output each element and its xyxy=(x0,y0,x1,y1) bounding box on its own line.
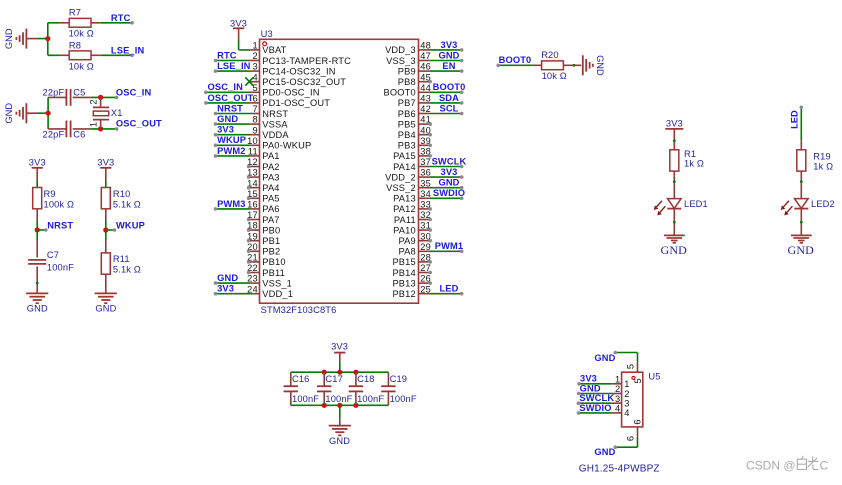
U3 pin 3 (PC14-OSC32_IN) xyxy=(214,61,336,76)
svg-text:PB2: PB2 xyxy=(262,247,280,257)
wire R10 to node WKUP xyxy=(105,220,107,230)
svg-text:5: 5 xyxy=(625,364,635,369)
wire NRST to C7 xyxy=(36,230,38,241)
svg-text:GND: GND xyxy=(329,436,350,446)
svg-text:LED2: LED2 xyxy=(811,199,835,209)
svg-text:C5: C5 xyxy=(73,88,85,98)
U3 pin 25 (PB12) xyxy=(392,284,463,299)
svg-text:EN: EN xyxy=(442,61,455,71)
svg-text:3V3: 3V3 xyxy=(217,125,234,135)
svg-text:100nF: 100nF xyxy=(325,394,352,404)
svg-text:SWCLK: SWCLK xyxy=(432,156,467,166)
U3 pin 7 (NRST) xyxy=(214,103,289,118)
U3 pin 11 (PA1) xyxy=(214,146,280,161)
U3 pin 19 (PB1) xyxy=(247,231,281,246)
wire R9 to node NRST xyxy=(36,220,38,230)
svg-text:OSC_IN: OSC_IN xyxy=(208,82,244,92)
svg-text:C18: C18 xyxy=(357,374,375,384)
svg-text:LED: LED xyxy=(789,110,799,129)
svg-text:LSE_IN: LSE_IN xyxy=(111,45,145,55)
wire LED1 to ground xyxy=(673,209,675,236)
svg-text:3: 3 xyxy=(252,62,257,72)
svg-text:VDD_2: VDD_2 xyxy=(385,172,416,182)
svg-text:GND: GND xyxy=(95,303,116,313)
junction OSC_IN xyxy=(98,95,103,100)
svg-text:1: 1 xyxy=(624,379,629,389)
LED LED2 xyxy=(781,199,835,216)
svg-text:100k Ω: 100k Ω xyxy=(44,199,75,209)
svg-text:GND: GND xyxy=(661,243,688,257)
svg-text:RTC: RTC xyxy=(217,50,237,60)
resistor R20 xyxy=(532,50,582,81)
U3 pin 13 (PA3) xyxy=(247,168,280,183)
svg-text:35: 35 xyxy=(420,178,431,188)
svg-text:37: 37 xyxy=(420,157,431,167)
svg-text:4: 4 xyxy=(624,408,629,418)
U3 pin 10 (PA0-WKUP) xyxy=(214,135,312,150)
svg-text:VSS_1: VSS_1 xyxy=(262,278,292,288)
power 3V3 (U3 VBAT) xyxy=(230,19,247,40)
svg-text:1: 1 xyxy=(615,374,620,384)
capacitor C19 xyxy=(381,372,417,405)
capacitor C17 xyxy=(317,372,353,405)
junction cap common xyxy=(46,111,51,116)
svg-text:SWDIO: SWDIO xyxy=(579,403,611,413)
capacitor C18 xyxy=(349,372,385,405)
U3 pin 41 (PB5) xyxy=(398,115,432,130)
svg-text:3V3: 3V3 xyxy=(230,19,247,29)
wire 3V3 to pin 1 xyxy=(238,40,240,50)
junction bottom bus xyxy=(322,403,327,408)
U3 pin 47 (VSS_3) xyxy=(386,50,463,65)
svg-text:PC14-OSC32_IN: PC14-OSC32_IN xyxy=(262,66,335,76)
svg-text:SDA: SDA xyxy=(439,93,459,103)
svg-text:2: 2 xyxy=(88,99,98,104)
U3 pin 16 (PA6) xyxy=(214,199,280,214)
svg-text:X1: X1 xyxy=(111,108,123,118)
capacitor C6 xyxy=(43,121,91,140)
junction top bus xyxy=(353,370,358,375)
junction OSC_OUT xyxy=(98,126,103,131)
junction top bus xyxy=(337,370,342,375)
svg-text:R11: R11 xyxy=(113,254,130,264)
LED LED1 xyxy=(654,199,708,216)
svg-text:PB4: PB4 xyxy=(398,130,416,140)
svg-text:10k Ω: 10k Ω xyxy=(69,28,94,38)
U3 pin 15 (PA5) xyxy=(247,189,280,204)
svg-text:PB10: PB10 xyxy=(262,257,285,267)
svg-text:3: 3 xyxy=(615,394,620,404)
svg-text:PB14: PB14 xyxy=(392,268,415,278)
svg-text:LSE_IN: LSE_IN xyxy=(217,61,251,71)
U3 pin 28 (PB15) xyxy=(392,253,432,268)
svg-text:C6: C6 xyxy=(73,130,85,140)
svg-text:PA4: PA4 xyxy=(262,183,279,193)
resistor R9 xyxy=(33,188,74,221)
U3 pin 22 (PB11) xyxy=(247,263,285,278)
U5 pin 6 (GND bottom) xyxy=(594,419,642,457)
svg-text:47: 47 xyxy=(420,51,431,61)
resistor R19 xyxy=(797,141,833,199)
svg-text:OSC_OUT: OSC_OUT xyxy=(116,119,162,129)
svg-text:PWM1: PWM1 xyxy=(435,241,464,251)
svg-text:7: 7 xyxy=(252,104,257,114)
resistor R7 xyxy=(59,8,100,39)
svg-text:R19: R19 xyxy=(813,151,831,161)
svg-text:PA7: PA7 xyxy=(262,215,279,225)
resistor R8 xyxy=(59,40,100,71)
junction NRST xyxy=(35,227,40,232)
svg-text:22pF: 22pF xyxy=(43,88,65,98)
wire 3V3 to R10 xyxy=(105,180,107,188)
svg-text:6: 6 xyxy=(625,436,635,441)
svg-text:100nF: 100nF xyxy=(47,263,74,273)
wire net RTC xyxy=(101,22,132,24)
U3 pin 21 (PB10) xyxy=(247,253,286,268)
svg-text:42: 42 xyxy=(420,104,431,114)
connector U5 body xyxy=(622,372,643,427)
svg-text:3V3: 3V3 xyxy=(441,40,458,50)
svg-text:PA13: PA13 xyxy=(393,194,416,204)
svg-text:GND: GND xyxy=(595,55,605,76)
ground GND (R7/R8 common) xyxy=(4,28,37,49)
svg-text:PB1: PB1 xyxy=(262,236,280,246)
svg-text:GND: GND xyxy=(4,28,14,49)
svg-text:WKUP: WKUP xyxy=(217,135,246,145)
svg-text:PA1: PA1 xyxy=(262,151,279,161)
U3 pin 27 (PB14) xyxy=(392,263,432,278)
svg-text:8: 8 xyxy=(252,115,257,125)
svg-text:1: 1 xyxy=(88,122,98,127)
svg-text:PB12: PB12 xyxy=(392,289,415,299)
svg-text:24: 24 xyxy=(247,284,258,294)
svg-text:U3: U3 xyxy=(261,29,273,39)
svg-text:BOOT0: BOOT0 xyxy=(499,55,532,65)
svg-text:3: 3 xyxy=(624,399,629,409)
svg-text:5: 5 xyxy=(252,83,257,93)
svg-text:100nF: 100nF xyxy=(292,394,319,404)
svg-text:C17: C17 xyxy=(325,374,343,384)
svg-text:PB5: PB5 xyxy=(398,119,416,129)
U3 pin 33 (PA12) xyxy=(393,200,432,215)
junction bottom bus xyxy=(353,403,358,408)
svg-text:3V3: 3V3 xyxy=(580,374,597,384)
svg-text:STM32F103C8T6: STM32F103C8T6 xyxy=(261,305,337,315)
svg-text:PA11: PA11 xyxy=(394,215,416,225)
U3 pin 31 (PA10) xyxy=(393,221,432,236)
svg-text:SWCLK: SWCLK xyxy=(579,393,614,403)
U3 pin 2 (PC13-TAMPER-RTC) xyxy=(214,50,351,65)
ground GND (crystal caps) xyxy=(4,103,37,124)
svg-text:3V3: 3V3 xyxy=(441,167,458,177)
U3 pin 37 (PA14) xyxy=(393,156,466,171)
svg-text:C19: C19 xyxy=(390,374,408,384)
U3 pin 34 (PA13) xyxy=(393,188,465,203)
svg-text:11: 11 xyxy=(248,147,258,157)
svg-text:43: 43 xyxy=(420,94,431,104)
svg-text:29: 29 xyxy=(420,242,431,252)
svg-text:R8: R8 xyxy=(69,40,81,50)
svg-text:23: 23 xyxy=(247,274,258,284)
svg-text:LED1: LED1 xyxy=(684,199,708,209)
svg-text:PA5: PA5 xyxy=(262,194,279,204)
svg-text:NRST: NRST xyxy=(262,109,288,119)
svg-text:PA6: PA6 xyxy=(262,204,279,214)
svg-text:PB15: PB15 xyxy=(392,257,415,267)
junction bottom bus xyxy=(337,403,342,408)
U3 pin 1 (VBAT) xyxy=(250,41,287,56)
svg-text:PB3: PB3 xyxy=(398,141,416,151)
U3 pin 8 (VSSA) xyxy=(214,114,289,129)
U3 pin 46 (PB9) xyxy=(398,61,464,76)
svg-text:3V3: 3V3 xyxy=(29,157,46,167)
svg-text:NRST: NRST xyxy=(217,103,243,113)
svg-text:NRST: NRST xyxy=(47,221,73,231)
svg-text:5: 5 xyxy=(633,378,643,383)
junction WKUP xyxy=(103,227,108,232)
svg-text:PB9: PB9 xyxy=(398,66,416,76)
svg-text:PWM3: PWM3 xyxy=(217,199,246,209)
wire 3V3 to R9 xyxy=(36,180,38,188)
svg-text:4: 4 xyxy=(615,404,620,414)
wire net LED xyxy=(800,108,802,141)
svg-text:PB6: PB6 xyxy=(398,109,416,119)
capacitor C5 xyxy=(43,88,91,106)
svg-text:R20: R20 xyxy=(541,50,559,60)
U3 pin 30 (PA9) xyxy=(398,231,432,246)
wire WKUP to R11 xyxy=(105,230,107,241)
wire net BOOT0 xyxy=(498,64,531,66)
power 3V3 (cap bank) xyxy=(331,341,348,361)
U5 pin 1 (3V3) xyxy=(577,374,629,389)
ground GND (LED2) xyxy=(788,235,815,256)
pin 1 marker dot U5 xyxy=(632,376,635,379)
svg-text:PD1-OSC_OUT: PD1-OSC_OUT xyxy=(262,98,330,108)
ground GND (LED1) xyxy=(661,235,688,256)
svg-text:R1: R1 xyxy=(684,149,696,159)
svg-text:PB11: PB11 xyxy=(262,268,285,278)
svg-text:10k Ω: 10k Ω xyxy=(69,61,94,71)
svg-text:GND: GND xyxy=(438,178,459,188)
svg-text:PWM2: PWM2 xyxy=(217,146,246,156)
svg-text:PA12: PA12 xyxy=(393,204,416,214)
svg-text:16: 16 xyxy=(247,200,258,210)
ground GND (R11) xyxy=(95,293,117,313)
svg-text:PA10: PA10 xyxy=(393,225,416,235)
svg-text:PA8: PA8 xyxy=(398,247,415,257)
svg-text:U5: U5 xyxy=(648,372,660,382)
svg-text:R10: R10 xyxy=(113,189,131,199)
U3 pin 17 (PA7) xyxy=(247,210,280,225)
U5 pin 3 (SWCLK) xyxy=(577,393,630,408)
resistor R11 xyxy=(101,241,141,294)
svg-text:100nF: 100nF xyxy=(390,394,417,404)
ground GND (R20) xyxy=(583,55,605,76)
svg-text:CSDN @: CSDN @ xyxy=(746,459,796,473)
svg-text:PB13: PB13 xyxy=(392,278,415,288)
svg-text:GND: GND xyxy=(594,447,615,457)
svg-text:GH1.25-4PWBPZ: GH1.25-4PWBPZ xyxy=(579,464,660,475)
svg-text:PB8: PB8 xyxy=(398,77,416,87)
svg-text:PA0-WKUP: PA0-WKUP xyxy=(262,141,311,151)
wire top bus xyxy=(291,371,389,373)
svg-text:GND: GND xyxy=(594,353,615,363)
resistor R10 xyxy=(101,188,141,221)
U3 pin 9 (VDDA) xyxy=(214,125,290,140)
svg-text:PA15: PA15 xyxy=(393,151,416,161)
svg-text:VDD_1: VDD_1 xyxy=(262,289,293,299)
svg-text:PC15-OSC32_OUT: PC15-OSC32_OUT xyxy=(262,77,346,87)
svg-text:6: 6 xyxy=(632,419,642,424)
svg-text:100nF: 100nF xyxy=(357,394,384,404)
ground GND (C7) xyxy=(26,293,48,313)
U3 pin 20 (PB2) xyxy=(247,242,281,257)
capacitor C16 xyxy=(284,372,320,405)
wire LED2 to ground xyxy=(800,209,802,236)
wire 3V3 stem to top bus xyxy=(339,361,341,372)
svg-text:SCL: SCL xyxy=(439,103,458,113)
op-amp U3 body (STM32F103C8T6 MCU) xyxy=(260,39,419,303)
svg-text:34: 34 xyxy=(420,189,431,199)
junction top bus xyxy=(322,370,327,375)
U3 pin 39 (PB3) xyxy=(398,136,432,151)
U3 pin 35 (VSS_2) xyxy=(386,178,463,193)
svg-text:VSS_3: VSS_3 xyxy=(386,56,416,66)
U3 pin 12 (PA2) xyxy=(247,157,280,172)
svg-text:R7: R7 xyxy=(69,8,81,18)
capacitor C7 xyxy=(28,241,74,294)
svg-text:5.1k Ω: 5.1k Ω xyxy=(113,265,141,275)
svg-text:9: 9 xyxy=(252,125,257,135)
svg-text:2: 2 xyxy=(252,51,257,61)
U3 pin 18 (PB0) xyxy=(247,221,281,236)
U3 pin 24 (VDD_1) xyxy=(214,284,293,299)
U3 pin 23 (VSS_1) xyxy=(214,273,292,288)
svg-text:3V3: 3V3 xyxy=(331,341,348,351)
wire R7/R8 common node xyxy=(37,23,59,56)
U3 pin 6 (PD1-OSC_OUT) xyxy=(204,93,330,108)
U3 pin 38 (PA15) xyxy=(393,147,432,162)
svg-text:LED: LED xyxy=(439,284,458,294)
resistor R1 xyxy=(670,149,704,199)
svg-text:OSC_OUT: OSC_OUT xyxy=(208,93,254,103)
U3 pin 26 (PB13) xyxy=(392,274,432,289)
svg-text:PA3: PA3 xyxy=(262,172,279,182)
svg-text:GND: GND xyxy=(217,273,238,283)
crystal X1 xyxy=(93,97,123,128)
svg-text:PB7: PB7 xyxy=(398,98,416,108)
svg-text:R9: R9 xyxy=(44,189,56,199)
junction R7/R8 node xyxy=(45,36,50,41)
svg-text:GND: GND xyxy=(27,303,48,313)
svg-text:OSC_IN: OSC_IN xyxy=(116,87,152,97)
svg-text:GND: GND xyxy=(438,50,459,60)
svg-text:2: 2 xyxy=(624,389,629,399)
power 3V3 (LED1) xyxy=(665,119,683,150)
U3 pin 48 (VDD_3) xyxy=(385,40,463,55)
svg-text:PC13-TAMPER-RTC: PC13-TAMPER-RTC xyxy=(262,56,351,66)
wire bottom bus to ground xyxy=(339,405,341,418)
svg-text:1: 1 xyxy=(252,41,257,51)
wire bottom bus xyxy=(291,404,389,406)
U5 pin 4 (SWDIO) xyxy=(577,403,630,418)
svg-text:BOOT0: BOOT0 xyxy=(433,82,466,92)
U3 pin 40 (PB4) xyxy=(398,125,432,140)
svg-text:PA9: PA9 xyxy=(398,236,415,246)
svg-text:GND: GND xyxy=(580,383,601,393)
U3 pin 29 (PA8) xyxy=(398,241,463,256)
svg-text:10: 10 xyxy=(247,136,258,146)
U3 pin 44 (BOOT0) xyxy=(384,82,466,97)
svg-text:PB0: PB0 xyxy=(262,225,280,235)
U3 pin 32 (PA11) xyxy=(394,210,432,225)
svg-text:2: 2 xyxy=(615,384,620,394)
svg-text:36: 36 xyxy=(420,168,431,178)
svg-text:C16: C16 xyxy=(292,374,310,384)
svg-text:VSS_2: VSS_2 xyxy=(386,183,416,193)
svg-text:GND: GND xyxy=(788,243,815,257)
svg-text:48: 48 xyxy=(420,41,431,51)
svg-text:GND: GND xyxy=(4,103,14,124)
svg-text:VDD_3: VDD_3 xyxy=(385,45,416,55)
svg-text:10k Ω: 10k Ω xyxy=(542,71,567,81)
U5 pin 2 (GND) xyxy=(577,383,630,398)
U3 pin 4 (PC15-OSC32_OUT) xyxy=(245,72,346,87)
svg-text:RTC: RTC xyxy=(111,13,131,23)
svg-text:3V3: 3V3 xyxy=(666,119,683,129)
svg-text:PA14: PA14 xyxy=(393,162,416,172)
U3 pin 42 (PB6) xyxy=(398,103,464,118)
svg-text:C: C xyxy=(820,459,829,473)
U3 pin 45 (PB8) xyxy=(398,72,432,87)
svg-text:WKUP: WKUP xyxy=(116,221,145,231)
U3 pin 14 (PA4) xyxy=(247,178,280,193)
svg-text:PA2: PA2 xyxy=(262,162,279,172)
svg-text:C7: C7 xyxy=(47,250,59,260)
wire net LSE_IN xyxy=(101,54,132,56)
U3 pin 5 (PD0-OSC_IN) xyxy=(204,82,319,97)
power 3V3 (R10) xyxy=(97,157,114,179)
svg-text:PD0-OSC_IN: PD0-OSC_IN xyxy=(262,88,319,98)
U5 pin 5 (GND top) xyxy=(594,351,643,384)
svg-text:25: 25 xyxy=(420,284,431,294)
svg-text:3V3: 3V3 xyxy=(97,157,114,167)
svg-text:3V3: 3V3 xyxy=(217,284,234,294)
power 3V3 (R9) xyxy=(29,157,46,179)
U3 pin 43 (PB7) xyxy=(398,93,464,108)
svg-text:46: 46 xyxy=(420,62,431,72)
svg-text:22pF: 22pF xyxy=(43,130,65,140)
ground GND (cap bank) xyxy=(329,418,351,446)
svg-text:GND: GND xyxy=(217,114,238,124)
svg-text:VSSA: VSSA xyxy=(262,119,288,129)
svg-text:1k Ω: 1k Ω xyxy=(813,162,833,172)
U3 pin 36 (VDD_2) xyxy=(385,167,463,182)
svg-text:44: 44 xyxy=(420,83,431,93)
svg-text:BOOT0: BOOT0 xyxy=(384,88,416,98)
svg-text:VDDA: VDDA xyxy=(262,130,289,140)
svg-text:1k Ω: 1k Ω xyxy=(684,159,704,169)
svg-text:5.1k Ω: 5.1k Ω xyxy=(113,199,141,209)
pin 1 marker dot U3 xyxy=(263,42,267,46)
wire crystal cap common xyxy=(37,97,116,128)
svg-text:VBAT: VBAT xyxy=(262,45,286,55)
svg-text:SWDIO: SWDIO xyxy=(433,188,465,198)
